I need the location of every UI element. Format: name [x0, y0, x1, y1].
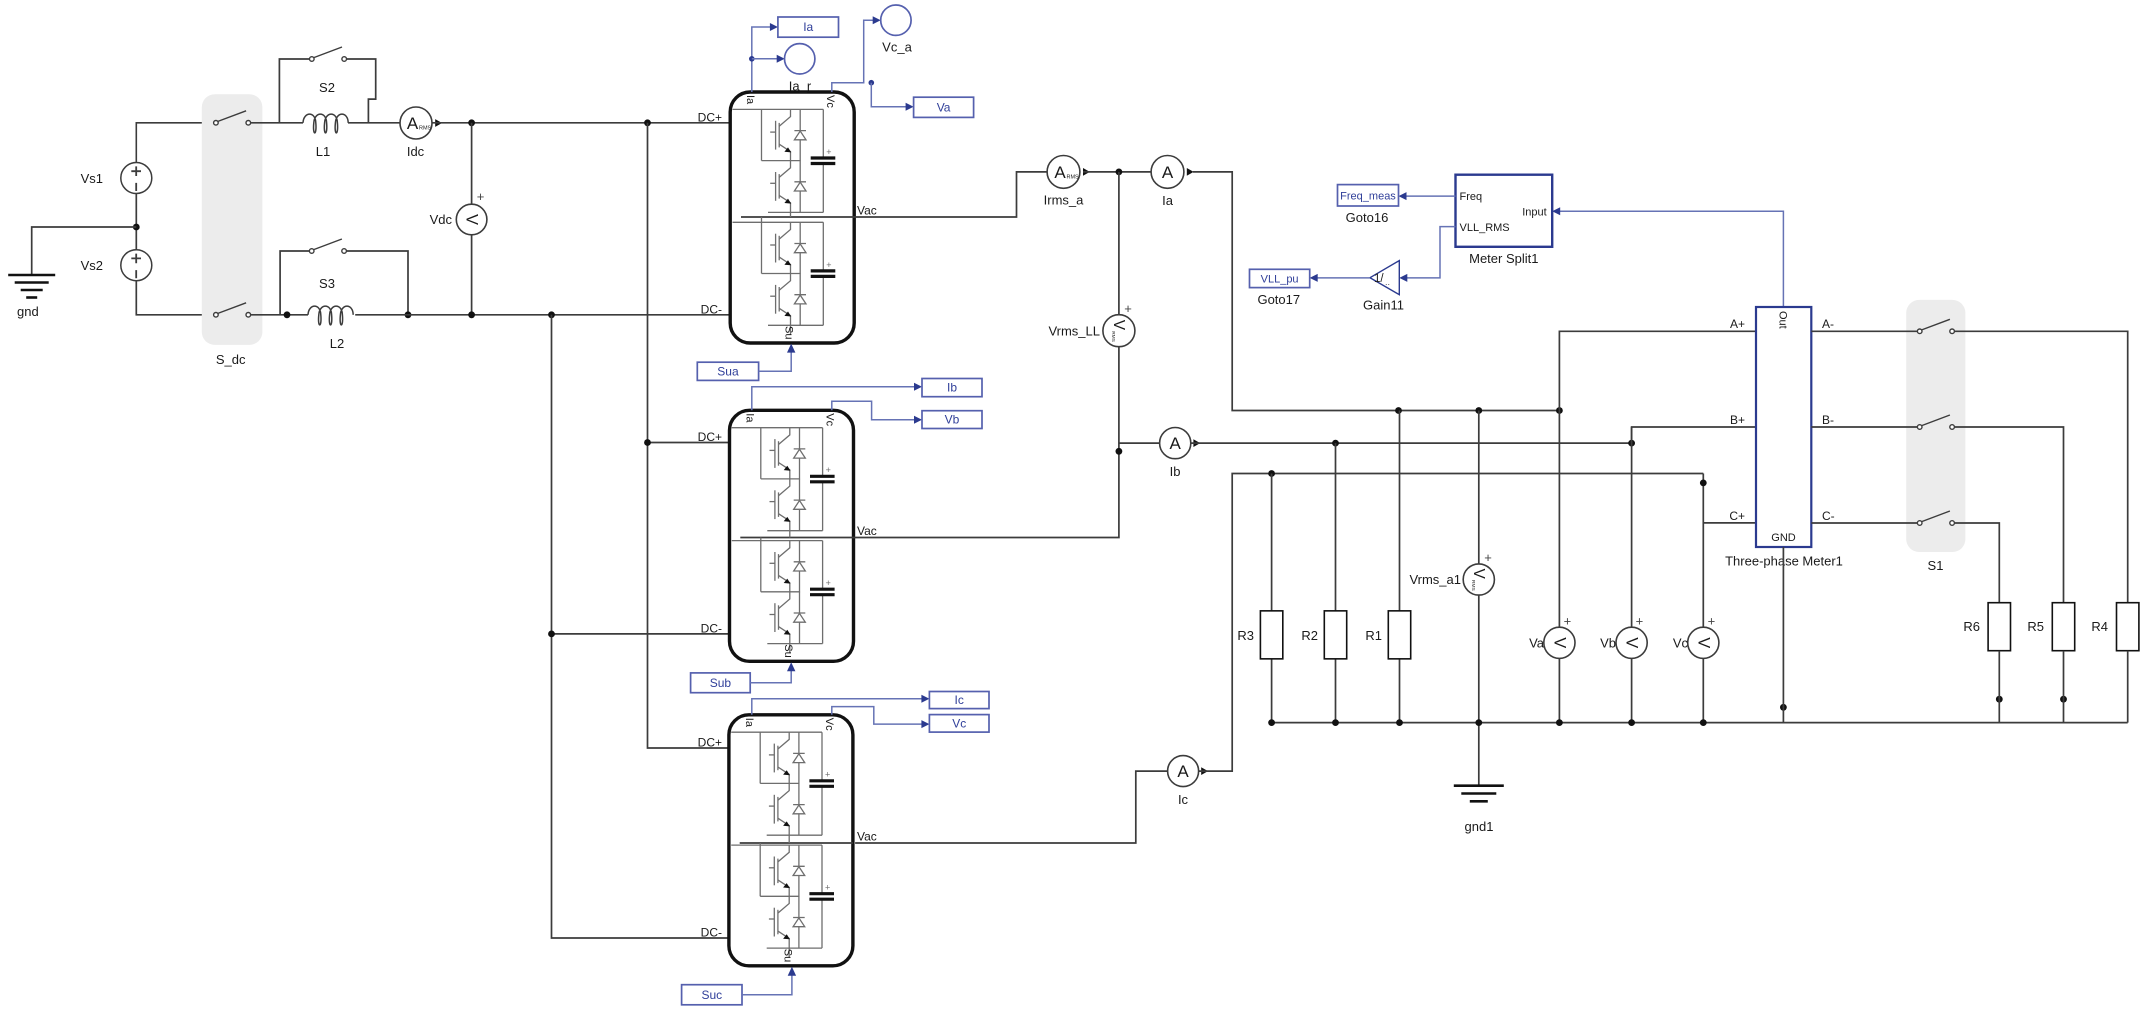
scope Ia_r	[785, 44, 815, 74]
svg-text:Sua: Sua	[717, 364, 739, 378]
goto tag Ic	[929, 692, 989, 709]
wire DC- rail	[355, 314, 730, 316]
inverter U_b internal links	[761, 531, 790, 654]
signal wire Ib goto	[752, 387, 916, 411]
svg-text:Vc: Vc	[824, 95, 836, 108]
svg-text:Vb: Vb	[945, 413, 960, 427]
svg-text:A: A	[1170, 434, 1182, 453]
svg-text:+: +	[1124, 301, 1132, 316]
node bus Vc	[1700, 719, 1707, 726]
wire C- to S1	[1811, 522, 1917, 524]
wire Vs2 to S_dc bottom	[136, 281, 213, 315]
ammeter Ib	[1160, 428, 1191, 459]
node S3 right	[405, 311, 412, 318]
svg-text:Su: Su	[783, 326, 795, 339]
svg-text:Goto17: Goto17	[1257, 292, 1300, 307]
svg-text:DC+: DC+	[698, 111, 722, 125]
svg-text:R4: R4	[2091, 619, 2108, 634]
switch S_dc lower pole	[214, 303, 251, 317]
signal node Vc	[869, 80, 875, 86]
block Three-phase Meter1	[1756, 307, 1811, 547]
svg-text:RMS: RMS	[1110, 331, 1116, 342]
node bus R2	[1332, 719, 1339, 726]
svg-text:Meter Split1: Meter Split1	[1469, 251, 1538, 266]
svg-text:Vs1: Vs1	[81, 171, 103, 186]
resistor R4	[2117, 603, 2139, 651]
arrowhead Ic goto	[921, 695, 929, 703]
inverter U_a upper half-bridge cell	[733, 109, 836, 212]
svg-text:Vdc: Vdc	[430, 212, 453, 227]
wire R5 down	[2063, 651, 2065, 723]
goto tag Sub	[691, 673, 751, 693]
signal wire gain out	[1316, 277, 1370, 279]
wire phase C	[1199, 474, 1704, 772]
node C junction	[1700, 480, 1707, 487]
wire B+ riser	[1632, 427, 1755, 443]
switch S1 pole B	[1917, 415, 1954, 429]
svg-text:Va: Va	[1529, 636, 1545, 651]
signal wire Sub	[750, 667, 791, 683]
wire R1 branch	[1399, 411, 1401, 723]
ammeter Irms_a	[1047, 156, 1080, 189]
node R2 tap	[1332, 440, 1339, 447]
wire DC+ tap to inverter B	[648, 442, 730, 444]
svg-text:RMS: RMS	[419, 126, 432, 132]
inverter U_a internal links	[762, 212, 791, 335]
wire L1 to Idc	[348, 122, 400, 124]
wire Irms_a to Ia meter	[1083, 171, 1151, 173]
signal wire Ia to goto	[752, 27, 771, 92]
gain block Gain11	[1370, 261, 1399, 295]
voltage source Vs1	[121, 163, 152, 194]
voltmeter Vrms_LL	[1103, 315, 1135, 347]
wire DC- bus vertical	[552, 315, 729, 938]
wire meter GND down	[1782, 547, 1784, 723]
wire DC- tap to inverter B	[552, 633, 730, 635]
arrowhead Freq_meas	[1399, 192, 1407, 200]
arrowhead Va goto	[906, 103, 914, 111]
svg-text:Ia: Ia	[803, 20, 813, 34]
inverter U_c internal links	[760, 835, 789, 958]
inverter block U_a border	[730, 92, 854, 343]
wire DC+ bus vertical	[648, 123, 729, 748]
svg-text:A-: A-	[1822, 317, 1834, 331]
svg-text:C+: C+	[1729, 509, 1745, 523]
goto tag Va	[914, 97, 974, 117]
svg-text:B+: B+	[1730, 413, 1745, 427]
resistor R1	[1388, 611, 1410, 659]
svg-text:Ia: Ia	[743, 718, 755, 728]
wire to gnd	[32, 227, 137, 274]
svg-text:..: ..	[1385, 277, 1390, 287]
node R3 tap	[1268, 470, 1275, 477]
node DC- bus tap	[548, 311, 555, 318]
svg-text:Vac: Vac	[857, 830, 877, 844]
wire phase B	[1191, 442, 1632, 444]
svg-text:V: V	[1623, 637, 1641, 648]
signal wire Ia to scope	[752, 58, 779, 60]
switch S3	[309, 239, 346, 253]
goto tag Freq_meas	[1338, 185, 1399, 206]
svg-text:DC+: DC+	[698, 736, 722, 750]
svg-text:Out: Out	[1777, 311, 1789, 329]
node Ib tap	[1116, 448, 1123, 455]
wire S_dc to L1 node	[251, 122, 303, 124]
svg-text:A: A	[1162, 163, 1174, 182]
svg-text:Freq: Freq	[1460, 191, 1483, 203]
svg-text:Ic: Ic	[955, 693, 964, 707]
voltmeter Vdc	[456, 204, 487, 235]
arrowhead Suc	[788, 967, 796, 976]
switch S2	[310, 47, 347, 61]
signal wire Suc	[742, 972, 792, 995]
svg-text:Ia: Ia	[1162, 193, 1174, 208]
svg-text:V: V	[1110, 320, 1127, 331]
svg-text:Idc: Idc	[407, 144, 425, 159]
svg-text:Vc_a: Vc_a	[882, 40, 912, 55]
svg-text:DC+: DC+	[698, 430, 722, 444]
inverter U_c upper half-bridge cell	[731, 732, 834, 835]
svg-text:S_dc: S_dc	[216, 352, 246, 367]
arrowhead Vc goto	[921, 720, 929, 728]
wire Vs1-Vs2	[135, 194, 137, 250]
wire Vb branch	[1631, 427, 1633, 723]
signal wire meter Out to Input	[1558, 211, 1783, 307]
svg-text:+: +	[1484, 550, 1492, 565]
wire S2 branch down	[346, 59, 375, 123]
wire Vac A to Irms_a	[854, 172, 1048, 217]
resistor R5	[2052, 603, 2074, 651]
resistor R2	[1324, 611, 1346, 659]
svg-text:+: +	[1564, 614, 1572, 629]
resistor R6	[1988, 603, 2010, 651]
node bus Va	[1556, 719, 1563, 726]
wire Vrms_a1 branch	[1478, 411, 1480, 786]
svg-text:1/: 1/	[1374, 273, 1384, 285]
inverter block U_c border	[729, 715, 853, 966]
svg-text:Vs2: Vs2	[81, 258, 103, 273]
svg-text:Vc: Vc	[952, 716, 966, 730]
svg-text:Va: Va	[937, 100, 951, 114]
inductor L1	[303, 114, 348, 133]
node Vrms_LL tap	[1116, 169, 1123, 176]
svg-text:V: V	[1470, 569, 1487, 580]
svg-text:gnd: gnd	[17, 304, 39, 319]
svg-text:Vc: Vc	[1673, 636, 1689, 651]
svg-text:Ic: Ic	[1178, 792, 1189, 807]
svg-text:Goto16: Goto16	[1346, 210, 1389, 225]
wire S3 branch down	[346, 251, 408, 315]
arrowhead gain input	[1399, 274, 1407, 282]
svg-text:Ib: Ib	[947, 381, 957, 395]
inverter U_c lower half-bridge cell	[731, 845, 834, 948]
svg-text:+: +	[1636, 614, 1644, 629]
voltmeter Vb	[1616, 627, 1647, 658]
arrowhead Vc_a scope	[873, 16, 881, 24]
wire R2 branch	[1335, 443, 1337, 722]
arrow Ia out	[1187, 168, 1194, 176]
svg-text:Freq_meas: Freq_meas	[1340, 190, 1396, 202]
wire A- to R4	[1954, 331, 2127, 602]
node bus Vrms_a1	[1475, 719, 1482, 726]
wire Vac C to Ic meter	[855, 771, 1168, 843]
svg-text:VLL_RMS: VLL_RMS	[1460, 222, 1510, 234]
svg-text:R6: R6	[1963, 619, 1980, 634]
wire R6 down	[1998, 651, 2000, 723]
inverter U_a lower half-bridge cell	[733, 222, 836, 325]
svg-text:gnd1: gnd1	[1465, 819, 1494, 834]
goto tag Sua	[697, 362, 758, 380]
switch block S1 background	[1906, 300, 1965, 552]
inverter U_b internal Vac wire	[740, 537, 853, 539]
svg-text:S2: S2	[319, 80, 335, 95]
svg-text:Ia: Ia	[744, 95, 756, 105]
switch block S_dc background	[202, 94, 263, 345]
wire Vc branch lower	[1702, 658, 1704, 722]
svg-text:Vb: Vb	[1600, 636, 1616, 651]
voltmeter Vc	[1688, 627, 1719, 658]
node DC+ inverter B tap	[644, 439, 651, 446]
arrowhead Ia goto	[770, 23, 778, 31]
wire neutral bus	[1272, 722, 2128, 724]
svg-text:R3: R3	[1237, 628, 1254, 643]
svg-text:GND: GND	[1771, 532, 1796, 544]
node R1 tap	[1395, 407, 1402, 414]
svg-text:RMS: RMS	[1067, 174, 1080, 180]
node bus meter GND	[1780, 704, 1787, 711]
wire A+ riser	[1559, 331, 1755, 410]
svg-text:Vc: Vc	[824, 413, 836, 426]
node bus R3	[1268, 719, 1275, 726]
svg-text:Su: Su	[782, 644, 794, 657]
svg-text:B-: B-	[1822, 413, 1834, 427]
arrowhead Sub	[787, 662, 795, 671]
ammeter Idc	[400, 107, 432, 139]
node Vdc- tap	[468, 311, 475, 318]
svg-text:Suc: Suc	[701, 988, 722, 1002]
goto tag Vc	[929, 715, 989, 733]
goto tag Ia	[778, 17, 839, 37]
voltmeter Va	[1544, 627, 1575, 658]
voltmeter Vrms_a1	[1463, 564, 1494, 595]
wire DC+ rail	[432, 122, 730, 124]
svg-text:A: A	[1177, 762, 1189, 781]
svg-text:V: V	[1694, 637, 1712, 648]
svg-text:DC-: DC-	[701, 303, 722, 317]
signal wire Freq	[1405, 195, 1456, 197]
signal wire Vc_a	[832, 20, 875, 92]
svg-text:Vac: Vac	[857, 204, 877, 218]
ammeter Ia	[1151, 156, 1184, 189]
inverter block U_b border	[730, 410, 854, 661]
node S3 left	[284, 311, 291, 318]
svg-text:Vrms_a1: Vrms_a1	[1409, 572, 1461, 587]
signal node Ia	[749, 56, 755, 62]
svg-text:Ia_r: Ia_r	[789, 79, 812, 94]
svg-text:R5: R5	[2027, 619, 2044, 634]
wire phase A to meter	[1193, 172, 1559, 411]
arrow Ib out	[1193, 439, 1200, 447]
wire Vrms_LL branch	[854, 172, 1119, 538]
wire S3 branch up	[280, 251, 309, 315]
wire B- to R5	[1954, 427, 2063, 603]
arrowhead Ib goto	[914, 383, 922, 391]
arrow Ic out	[1201, 767, 1208, 775]
svg-text:L1: L1	[316, 144, 330, 159]
arrowhead Input	[1552, 207, 1560, 215]
arrow Idc out	[435, 119, 442, 127]
scope Vc_a	[881, 5, 911, 35]
signal wire VLL_RMS to gain	[1406, 227, 1456, 278]
wire to Ib meter	[1119, 442, 1160, 444]
svg-text:Ia: Ia	[744, 413, 756, 423]
switch S1 pole C	[1917, 511, 1954, 525]
svg-text:Vrms_LL: Vrms_LL	[1048, 324, 1100, 339]
svg-text:Ib: Ib	[1170, 464, 1181, 479]
resistor R3	[1260, 611, 1282, 659]
sine source Vs1 wire to S_dc	[136, 123, 213, 163]
arrowhead Vb goto	[914, 416, 922, 424]
inverter U_b upper half-bridge cell	[732, 428, 835, 531]
svg-text:C-: C-	[1822, 509, 1835, 523]
node bus R5	[2060, 696, 2067, 703]
arrowhead Ia_r scope	[777, 55, 785, 63]
svg-text:+: +	[1708, 614, 1716, 629]
wire C+ tap	[1703, 522, 1755, 524]
wire C- to R6	[1954, 523, 1999, 603]
svg-text:DC-: DC-	[701, 926, 722, 940]
svg-text:Gain11: Gain11	[1363, 298, 1404, 313]
node Va tap	[1556, 407, 1563, 414]
voltage source Vs2	[121, 250, 152, 281]
goto tag VLL_pu	[1250, 269, 1310, 287]
switch S_dc upper pole	[214, 111, 251, 125]
wire Vdc branch	[471, 123, 473, 315]
inverter U_a internal Vac wire	[741, 216, 854, 218]
svg-text:RMS: RMS	[1470, 580, 1476, 591]
block Meter Split1	[1456, 175, 1553, 247]
wire S2 branch up	[279, 59, 309, 123]
svg-text:A: A	[407, 114, 419, 133]
arrowhead Sua	[787, 344, 795, 353]
wire C riser down	[1702, 474, 1704, 628]
svg-text:Su: Su	[781, 949, 793, 962]
signal wire Sua	[759, 349, 792, 372]
svg-text:S1: S1	[1928, 558, 1944, 573]
svg-text:Input: Input	[1522, 207, 1546, 219]
goto tag Vb	[922, 411, 982, 429]
svg-text:A+: A+	[1730, 317, 1745, 331]
switch S1 pole A	[1917, 319, 1954, 333]
node DC- inverter B tap	[548, 631, 555, 638]
svg-text:DC-: DC-	[701, 622, 722, 636]
node bus R1	[1396, 719, 1403, 726]
signal wire Va goto	[871, 83, 907, 107]
ground gnd	[8, 275, 55, 298]
wire R4 down	[2127, 651, 2129, 723]
svg-text:Irms_a: Irms_a	[1044, 193, 1085, 208]
node bus R6	[1996, 696, 2003, 703]
wire S_dc to L2 node	[251, 314, 308, 316]
wire R3 branch	[1271, 474, 1273, 723]
node Vrms_a1 tap	[1475, 407, 1482, 414]
svg-text:R1: R1	[1365, 628, 1382, 643]
svg-text:Sub: Sub	[710, 676, 732, 690]
svg-text:S3: S3	[319, 276, 335, 291]
arrowhead VLL_pu	[1310, 274, 1318, 282]
svg-text:R2: R2	[1301, 628, 1318, 643]
goto tag Ib	[922, 379, 982, 397]
inductor L2	[308, 306, 353, 325]
node DC+ bus tap	[644, 119, 651, 126]
svg-text:A: A	[1054, 163, 1066, 182]
svg-text:Vac: Vac	[857, 524, 877, 538]
ground gnd1	[1454, 786, 1504, 802]
signal wire Ic goto	[752, 699, 923, 715]
signal wire Vb goto	[832, 401, 916, 420]
goto tag Suc	[682, 985, 742, 1005]
ammeter Ic	[1168, 756, 1199, 787]
wire Va branch	[1558, 411, 1560, 723]
node Vdc+ tap	[468, 119, 475, 126]
svg-text:VLL_pu: VLL_pu	[1261, 273, 1299, 285]
svg-text:Vc: Vc	[823, 718, 835, 731]
wire A- to S1	[1811, 330, 1917, 332]
svg-text:+: +	[477, 189, 485, 204]
svg-text:L2: L2	[330, 336, 344, 351]
signal wire Vc goto	[832, 707, 923, 725]
svg-text:V: V	[1550, 637, 1568, 648]
node mid sources	[133, 224, 140, 231]
node B riser	[1628, 440, 1635, 447]
arrow Irms_a out	[1083, 168, 1090, 176]
wire B- to S1	[1811, 426, 1917, 428]
node bus Vb	[1628, 719, 1635, 726]
inverter U_b lower half-bridge cell	[732, 541, 835, 644]
inverter U_c internal Vac wire	[740, 842, 853, 844]
svg-text:V: V	[463, 214, 481, 225]
